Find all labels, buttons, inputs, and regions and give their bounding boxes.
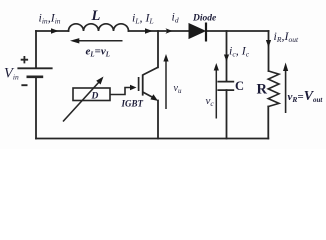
svg-text:C: C xyxy=(235,79,244,93)
current arrow i_R on right vertical xyxy=(266,40,271,48)
current arrow i_c on capacitor lead xyxy=(224,55,229,62)
IGBT Q1 gate lead arrow xyxy=(110,88,131,95)
inductor L xyxy=(69,24,129,31)
battery V_in plate long xyxy=(17,67,52,69)
IGBT Q1 body bar xyxy=(142,74,144,95)
battery V_in plate short xyxy=(27,76,44,79)
voltage arrow v_R (points up) xyxy=(285,70,287,114)
diode D1 triangle xyxy=(189,24,205,39)
capacitor C plate top xyxy=(217,81,234,83)
label battery plus xyxy=(21,56,28,63)
wire capacitor bottom lead xyxy=(226,90,228,138)
svg-text:Vin: Vin xyxy=(4,66,19,82)
svg-text:vu: vu xyxy=(174,83,182,95)
svg-text:iR,Iout: iR,Iout xyxy=(274,29,299,44)
svg-text:IGBT: IGBT xyxy=(121,99,144,109)
svg-text:vc: vc xyxy=(206,95,215,108)
wire right vertical lower xyxy=(267,107,269,139)
svg-text:id: id xyxy=(172,10,179,25)
svg-text:Diode: Diode xyxy=(192,14,217,24)
svg-text:iin,Iin: iin,Iin xyxy=(39,11,61,26)
svg-text:R: R xyxy=(257,82,268,98)
voltage arrow e_L (points left) xyxy=(78,40,123,42)
current arrow i_d on top wire xyxy=(166,28,173,34)
voltage arrow v_c (points up) xyxy=(215,69,217,119)
duty-cycle diagonal arrow xyxy=(63,82,100,122)
wire left vertical (battery top lead) xyxy=(35,31,37,68)
svg-text:D: D xyxy=(91,92,99,102)
IGBT Q1 collector angled lead xyxy=(143,67,158,75)
wire IGBT emitter vertical xyxy=(157,101,159,139)
label battery minus xyxy=(21,84,27,86)
voltage arrow v_u (points up) xyxy=(165,60,167,109)
svg-text:iL, IL: iL, IL xyxy=(132,11,154,26)
wire battery bottom lead xyxy=(35,77,37,139)
wire top-left segment xyxy=(36,30,69,32)
svg-text:eL=vL: eL=vL xyxy=(86,46,110,59)
capacitor C plate bottom xyxy=(217,89,234,91)
svg-text:vR=Vout: vR=Vout xyxy=(288,89,324,104)
svg-text:ic, Ic: ic, Ic xyxy=(229,44,250,59)
wire top middle segment xyxy=(129,30,190,32)
IGBT Q1 emitter angled lead with arrow xyxy=(143,92,153,98)
svg-text:L: L xyxy=(91,8,101,24)
current arrow i_in on top wire xyxy=(51,28,59,33)
wire capacitor top lead xyxy=(226,31,228,82)
wire bottom xyxy=(36,138,268,140)
diode D1 cathode bar xyxy=(205,23,207,42)
wire IGBT collector vertical xyxy=(157,31,159,67)
duty-cycle box D xyxy=(73,88,110,101)
wire top right segment xyxy=(207,30,269,32)
resistor R zigzag xyxy=(268,71,279,107)
IGBT Q1 gate bar xyxy=(138,77,140,91)
current arrow i_L on top wire xyxy=(145,28,153,33)
wire right vertical upper (to resistor) xyxy=(268,31,270,71)
